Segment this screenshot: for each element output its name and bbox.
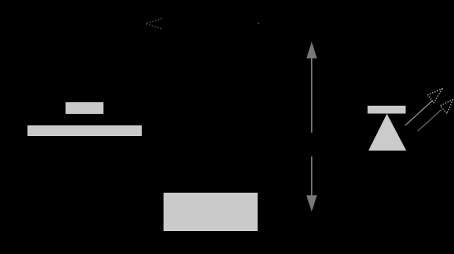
faint dash remnant of top dimension line [258,23,260,25]
vertical dimension arrow: lower shaft segment (gap for hidden label) [311,157,313,196]
dotted open arrowhead pointing left (top dimension line) [146,19,162,29]
light ray 2 shaft [418,110,442,132]
vertical dimension arrow: upper shaft segment [311,58,313,133]
large gray rectangle (lower left plate) [28,126,141,136]
vertical dimension arrow: bottom head [306,195,317,212]
vertical dimension arrow: top head [306,42,317,59]
light ray 1 shaft [405,100,432,125]
light ray 1 dotted arrowhead [428,89,442,103]
LED anode triangle [368,114,406,151]
small gray rectangle (upper left plate) [66,103,103,114]
LED cathode bar [368,106,405,113]
bottom gray rectangle (block) [164,193,257,230]
light ray 2 dotted arrowhead [440,100,453,114]
